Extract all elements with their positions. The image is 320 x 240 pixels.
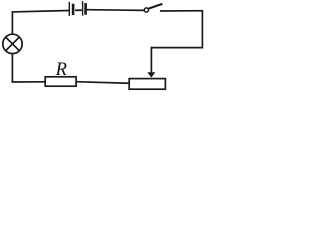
lamp (bulb) circle xyxy=(3,34,22,53)
battery cell 1 long plate xyxy=(68,3,70,16)
wire: lamp top up and right to battery xyxy=(12,11,68,35)
rheostat body (slide resistor) xyxy=(129,79,165,90)
wire: resistor left terminal to lamp bottom xyxy=(12,54,44,82)
slider arrowhead xyxy=(147,72,155,77)
battery dotted link dash 2 xyxy=(79,9,81,11)
battery cell 2 long plate xyxy=(82,2,84,15)
switch pivot circle xyxy=(144,8,148,12)
lamp X stroke 2 xyxy=(6,37,19,50)
battery dotted link dash 1 xyxy=(76,9,78,11)
battery cell 1 short thick plate xyxy=(72,5,75,14)
wire: battery to switch pivot xyxy=(87,9,144,12)
battery cell 2 short thick plate xyxy=(84,4,87,13)
resistor R body xyxy=(45,77,76,86)
wire: switch right contact to top-right corner, down right side, left along y=47.6 xyxy=(152,11,203,48)
label R (resistor value label) xyxy=(56,61,67,80)
wire: rheostat left terminal to resistor R right terminal xyxy=(77,82,128,84)
wire: down to rheostat slider xyxy=(150,48,152,73)
lamp X stroke 1 xyxy=(6,37,19,50)
switch blade (open) xyxy=(149,4,162,8)
